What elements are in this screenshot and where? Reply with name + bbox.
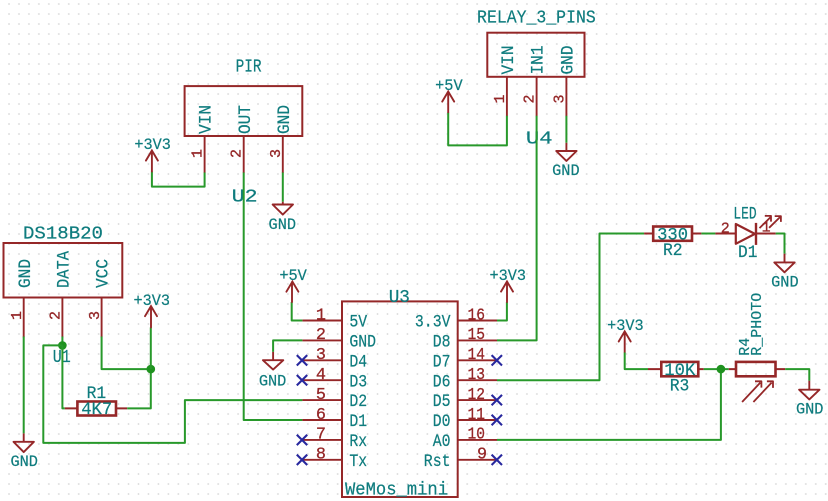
sensor U2 PIR [185,58,303,208]
no-connect pin 11 [492,415,502,425]
svg-text:6: 6 [316,406,326,425]
wire LED cathode to ground [776,234,785,254]
svg-text:1: 1 [9,311,26,320]
svg-text:D6: D6 [433,372,451,392]
pin 15 D8 [433,326,497,352]
svg-text:+3V3: +3V3 [607,317,644,335]
svg-text:10: 10 [468,426,486,445]
svg-text:3.3V: 3.3V [415,313,451,333]
node A0 junction [717,365,726,374]
node DATA junction [58,341,67,350]
svg-text:VIN: VIN [197,105,217,134]
MCU module U3 WeMos_mini [302,288,497,500]
wire R2 to LED [701,233,715,235]
wire U3 pin2 to ground [273,340,302,352]
pin 1 GND of U1 [9,259,36,337]
pin 1 cathode lead [756,233,776,235]
svg-text:13: 13 [468,366,486,385]
body U4 [487,33,584,77]
svg-text:A0: A0 [433,432,451,452]
wire U4 GND pin down [565,116,567,143]
pin 11 D0 [433,406,497,432]
pin 16 3.3V [415,306,497,332]
pin 2 OUT of U2 [229,105,256,173]
wire U4 IN1 down to D8 [497,116,537,341]
no-connect pin 14 [492,355,502,365]
wire U2 GND pin down [282,173,284,202]
wire U3 pin1 to +5V [292,302,303,321]
light arrow 1 [742,381,761,402]
svg-text:D8: D8 [433,333,451,353]
pin 4 D3 [302,366,367,392]
power +5V near U4 [435,77,463,112]
wire U1 GND pin down [23,337,25,434]
value R_PHOTO [749,293,766,356]
power +3V3 near U1 [133,292,170,328]
wire U3 pin10 A0 to R3/R4 junction [497,369,721,440]
svg-text:VCC: VCC [94,259,114,288]
svg-text:D4: D4 [349,352,367,372]
svg-text:R2: R2 [663,241,683,261]
pin 10 A0 [433,426,497,452]
svg-text:11: 11 [468,406,486,425]
svg-text:DATA: DATA [55,251,75,288]
anode triangle [736,224,755,244]
svg-text:15: 15 [468,326,486,345]
pin 2 GND [302,326,376,352]
svg-text:9: 9 [477,446,487,465]
svg-text:2: 2 [229,149,246,158]
svg-text:LED: LED [733,205,756,225]
relay U4 RELAY_3_PINS [477,8,596,149]
reference R4 [737,338,754,356]
pin 3 VCC of U1 [87,259,114,337]
power +5V near U3 [279,267,307,302]
svg-text:3: 3 [87,311,104,320]
ground below U4 [552,143,580,180]
svg-text:+3V3: +3V3 [489,267,526,285]
svg-text:IN1: IN1 [529,46,549,75]
no-connect pin 12 [492,395,502,405]
svg-text:3: 3 [268,149,285,158]
wire U1 DATA pin stub [61,337,63,346]
svg-text:R_PHOTO: R_PHOTO [749,293,766,356]
ground below LED [771,254,799,292]
body U2 [185,86,303,136]
svg-text:1: 1 [316,306,326,325]
body U3 [342,301,458,497]
svg-text:+5V: +5V [279,267,307,285]
svg-text:GND: GND [259,373,287,391]
svg-text:5V: 5V [349,313,367,333]
svg-text:GND: GND [771,273,799,291]
svg-text:RELAY_3_PINS: RELAY_3_PINS [477,8,596,28]
svg-text:2: 2 [48,311,65,320]
svg-text:1: 1 [762,220,771,237]
LED D1 [715,205,781,263]
pin 9 Rst [424,446,497,472]
pin 14 D7 [433,346,497,372]
pin 12 D5 [433,386,497,412]
pin 13 D6 [433,366,497,392]
svg-text:2: 2 [721,221,730,238]
svg-text:+5V: +5V [435,77,463,95]
wire junction up to +3V3 [150,327,152,369]
pin 1 VIN of U2 [190,105,217,173]
pin 6 D1 [302,406,367,432]
cathode bar [755,223,757,245]
svg-text:4: 4 [316,366,326,385]
pin 1 5V [302,306,367,332]
pin 3 GND of U2 [268,105,295,173]
power +3V3 near U3 [489,267,526,302]
pin 5 D2 [302,386,367,412]
wire R1 right up to +3V3 junction [127,369,151,408]
wire U1 VCC to junction [102,337,151,370]
svg-text:DS18B20: DS18B20 [23,225,103,245]
ground below R4 [796,381,824,419]
svg-text:2: 2 [316,326,326,345]
svg-text:D3: D3 [349,372,367,392]
pin 3 D4 [302,346,367,372]
photoresistor R4 [729,293,785,402]
sensor U1 DS18B20 [4,225,123,368]
no-connect pin 7 [297,435,307,445]
pin 7 Rx [302,426,367,452]
svg-text:GND: GND [269,216,297,234]
resistor R3 [648,361,704,397]
svg-text:D1: D1 [738,243,757,263]
svg-text:OUT: OUT [236,105,256,134]
svg-text:Rst: Rst [424,452,451,472]
pin 2 DATA of U1 [48,251,75,337]
svg-text:GND: GND [349,333,376,353]
wire U3 pin13 D6 to R2 [497,234,644,381]
svg-text:Rx: Rx [349,432,367,452]
svg-text:U3: U3 [389,288,410,308]
svg-text:2: 2 [522,94,539,103]
no-connect pin 8 [297,455,307,465]
resistor R1 [65,384,127,420]
svg-text:1: 1 [492,94,509,103]
ground below U2 [269,202,297,234]
svg-text:D2: D2 [349,392,367,412]
power +3V3 near U2 [134,136,171,172]
svg-text:14: 14 [468,346,486,365]
svg-text:GND: GND [10,453,38,471]
svg-text:VIN: VIN [499,46,519,75]
wire U2 OUT down to D1 [244,173,303,421]
wire DATA junction down to R1 left [62,345,64,408]
wire U2 VIN to +3V3 [152,172,205,187]
wire R4 to ground [785,369,809,381]
svg-text:D0: D0 [433,412,451,432]
svg-text:D5: D5 [433,392,451,412]
wire U3 pin16 to +3V3 [497,302,507,321]
svg-text:GND: GND [559,46,579,75]
no-connect pin 4 [297,375,307,385]
svg-text:GND: GND [796,401,824,419]
svg-text:3: 3 [551,94,568,103]
svg-text:12: 12 [468,386,486,405]
pin 8 Tx [302,446,367,472]
wire R3 to R4 [704,368,729,370]
pin 1 VIN of U4 [492,46,519,117]
no-connect pin 9 [492,455,502,465]
pin 3 GND of U4 [551,46,578,117]
emission arrow 1 [760,216,772,228]
svg-text:R3: R3 [670,377,690,397]
svg-text:U4: U4 [526,130,553,150]
wire U4 VIN to +5V [448,112,507,145]
wire +3V3 down to R3 row [625,353,648,370]
svg-text:7: 7 [316,426,326,445]
svg-text:3: 3 [316,346,326,365]
emission arrow 2 [769,216,781,228]
svg-text:+3V3: +3V3 [133,292,170,310]
svg-text:D1: D1 [349,412,367,432]
svg-text:D7: D7 [433,352,451,372]
svg-text:+3V3: +3V3 [134,136,171,154]
svg-text:16: 16 [468,306,486,325]
svg-text:WeMos_mini: WeMos_mini [345,481,448,501]
svg-text:GND: GND [16,259,36,288]
svg-text:GND: GND [275,105,295,134]
pin 2 anode lead [715,233,735,235]
ground below U1 [10,433,38,471]
ground below U3 pin2 [259,352,287,391]
node VCC junction [147,365,156,374]
wire DATA net to D2 (left, down, right) [43,345,302,443]
svg-text:5: 5 [316,386,326,405]
svg-text:8: 8 [316,446,326,465]
svg-text:GND: GND [552,162,580,180]
body U1 [4,243,123,298]
light arrow 2 [753,381,773,402]
svg-text:1: 1 [190,149,207,158]
svg-text:Tx: Tx [349,452,367,472]
svg-text:R1: R1 [87,384,107,404]
power +3V3 near R3 [607,317,644,353]
no-connect pin 3 [297,355,307,365]
svg-text:PIR: PIR [236,58,262,78]
pin 2 IN1 of U4 [522,46,549,117]
resistor R2 [644,225,701,261]
